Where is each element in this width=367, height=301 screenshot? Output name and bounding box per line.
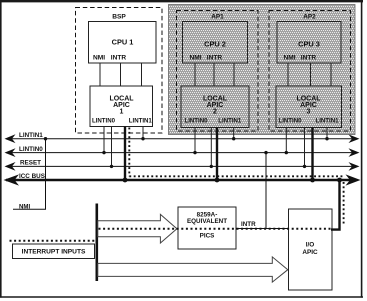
svg-text:LINTIN1: LINTIN1	[129, 118, 153, 125]
APIC1 LINTIN0 wire	[103, 127, 105, 153]
CPU 3 box	[277, 22, 341, 64]
dotted PIC-mode path horizontal	[129, 175, 343, 177]
APIC2 LINTIN1 wire	[233, 128, 235, 139]
svg-text:INTERRUPT INPUTS: INTERRUPT INPUTS	[22, 249, 86, 256]
AP2 dashed box	[269, 11, 351, 132]
LOCAL APIC 3 box	[276, 86, 342, 128]
APIC2 LINTIN0 wire	[194, 128, 196, 153]
wires CPU3 to LOCAL APIC 3	[288, 63, 331, 86]
APIC2 ICC wire (thick)	[216, 128, 218, 181]
8259A PICS box	[178, 207, 236, 249]
svg-text:3: 3	[307, 109, 311, 116]
CPU 1 box	[89, 22, 157, 64]
bus LINTIN0	[6, 152, 352, 154]
svg-text:AP1: AP1	[211, 13, 224, 20]
NMI wire	[13, 139, 46, 210]
svg-text:BSP: BSP	[112, 13, 126, 20]
dotted INTR path through PICS and over I/O APIC	[99, 228, 332, 230]
junction dots LINTIN1	[141, 137, 144, 140]
svg-text:LINTIN1: LINTIN1	[19, 132, 43, 139]
APIC3 LINTIN1 wire	[326, 128, 328, 139]
APIC3 LINTIN0 wire	[285, 128, 287, 153]
svg-text:APIC: APIC	[302, 249, 318, 256]
AP1 dashed box	[177, 11, 259, 132]
junction dots LINTIN0	[102, 151, 105, 154]
hollow arrow to PICS	[98, 214, 177, 243]
junction NMI-LINTIN1	[44, 137, 47, 140]
APIC2 RESET wire	[210, 128, 212, 167]
svg-text:LINTIN0: LINTIN0	[92, 118, 116, 125]
wires CPU1 to LOCAL APIC 1	[100, 63, 142, 86]
svg-text:LINTIN0: LINTIN0	[278, 117, 302, 124]
svg-text:INTR: INTR	[111, 54, 127, 61]
bus LINTIN1	[6, 138, 352, 140]
hollow arrow to I/O APIC	[98, 257, 288, 282]
dotted PIC-mode path vertical from APIC1	[128, 128, 130, 177]
bus ICC BUS (thick)	[6, 179, 350, 182]
svg-text:CPU 3: CPU 3	[298, 40, 320, 49]
svg-text:INTR: INTR	[207, 55, 223, 62]
BSP dashed box	[76, 8, 163, 134]
dotted PIC-mode path vertical right	[343, 182, 345, 226]
junction dots RESET	[110, 165, 113, 168]
LOCAL APIC 1 box	[90, 86, 153, 127]
INTERRUPT INPUTS box	[13, 244, 95, 259]
bus RESET	[6, 165, 352, 167]
svg-text:INTR: INTR	[241, 221, 256, 228]
APIC1 ICC wire (thick)	[124, 127, 126, 181]
svg-text:LINTIN1: LINTIN1	[218, 117, 242, 124]
dotted interrupt inputs line	[10, 240, 97, 242]
APIC1 RESET wire	[111, 127, 113, 167]
APIC3 ICC wire (thick)	[311, 128, 313, 181]
wires CPU2 to LOCAL APIC 2	[195, 63, 234, 86]
svg-text:2: 2	[213, 109, 217, 116]
svg-text:RESET: RESET	[20, 160, 41, 167]
svg-text:LINTIN0: LINTIN0	[184, 117, 208, 124]
svg-text:LINTIN0: LINTIN0	[19, 146, 43, 153]
APIC3 RESET wire	[304, 128, 306, 167]
CPU 2 box	[183, 22, 248, 64]
svg-text:CPU 2: CPU 2	[204, 40, 226, 49]
svg-text:CPU 1: CPU 1	[112, 38, 134, 47]
INTR wire	[236, 228, 289, 230]
INTR riser to LINTIN0	[265, 153, 267, 229]
APIC1 LINTIN1 wire	[142, 127, 144, 139]
svg-text:NMI: NMI	[93, 54, 105, 61]
svg-text:INTR: INTR	[301, 55, 317, 62]
svg-text:ICC BUS: ICC BUS	[19, 173, 45, 180]
thick PIC-mode corner	[331, 180, 340, 230]
svg-text:LINTIN1: LINTIN1	[315, 117, 339, 124]
svg-text:PICS: PICS	[200, 232, 215, 239]
shaded AP region	[169, 5, 356, 135]
thick divider line	[96, 204, 99, 282]
I/O APIC box	[289, 209, 333, 290]
LOCAL APIC 2 box	[181, 86, 249, 128]
svg-text:I/O: I/O	[306, 242, 315, 249]
junction dots ICC bus	[123, 178, 128, 183]
svg-text:NMI: NMI	[283, 55, 295, 62]
svg-text:NMI: NMI	[189, 55, 201, 62]
svg-text:AP2: AP2	[303, 13, 316, 20]
svg-text:1: 1	[120, 109, 124, 116]
svg-text:EQUIVALENT: EQUIVALENT	[187, 218, 227, 225]
